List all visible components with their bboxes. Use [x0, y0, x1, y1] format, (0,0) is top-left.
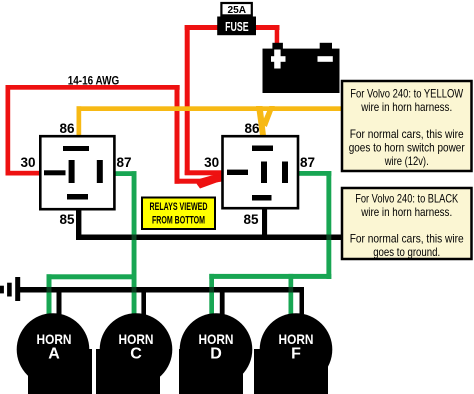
- relay U1 pin 30 bar: [44, 170, 66, 175]
- svg-text:For normal cars, this wire: For normal cars, this wire: [350, 232, 464, 246]
- horn C: [96, 313, 172, 394]
- relay U1 pin 87a bar: [69, 160, 75, 183]
- wire green: relay2 87 vertical: [326, 171, 331, 279]
- svg-text:FROM BOTTOM: FROM BOTTOM: [152, 215, 205, 227]
- svg-text:For Volvo 240: to YELLOW: For Volvo 240: to YELLOW: [350, 87, 464, 101]
- wire black: relay2 85 stub down: [262, 208, 267, 240]
- relay U1 pin 85 bar: [67, 194, 88, 200]
- svg-text:FUSE: FUSE: [225, 19, 249, 34]
- battery BT1 plus mark: [271, 56, 286, 62]
- wire yellow: stub down into relay1 pin 86: [77, 106, 82, 136]
- relay U2 pin 85 bar: [252, 195, 272, 201]
- wire red: left vertical down to relay1 30: [6, 85, 11, 175]
- svg-text:F: F: [291, 346, 301, 363]
- svg-text:wire in horn harness.: wire in horn harness.: [360, 205, 452, 219]
- wire crossing tint: green over ground bus at horn D: [209, 287, 214, 293]
- wire yellow: branch down into relay2 pin 86: [256, 106, 266, 136]
- wire green: relay2 87 stub: [298, 171, 331, 176]
- wire crossing tint: green over 85 bus at relay2 87: [326, 235, 331, 241]
- wire red: fuse left horizontal: [185, 25, 220, 30]
- svg-text:wire in horn harness.: wire in horn harness.: [360, 100, 452, 114]
- note box 2: black wire note: [342, 188, 472, 259]
- relay U2 pin 87 bar: [282, 162, 288, 184]
- svg-text:C: C: [130, 346, 142, 363]
- svg-text:D: D: [210, 346, 222, 363]
- note box 1: yellow wire note: [342, 81, 472, 171]
- svg-text:For normal cars, this wire: For normal cars, this wire: [350, 127, 464, 141]
- wire red: horizontal B into relay2 30: [185, 170, 223, 175]
- wire red: diagonal band A into relay2 30: [197, 175, 223, 189]
- wire green: branch horizontal over horns D F: [209, 274, 331, 279]
- wire green: branch horizontal to horn A: [47, 274, 137, 279]
- wire black: drop into horn A: [57, 287, 62, 315]
- relay U1 pin 86 bar: [63, 146, 89, 151]
- wire black: bus corner drop into horn F: [300, 287, 305, 314]
- horn F: [254, 313, 332, 394]
- svg-text:86: 86: [59, 121, 75, 136]
- fuse F1 body: [217, 17, 256, 36]
- wire green: relay1 87 stub: [114, 171, 137, 176]
- wire red: horizontal A toward relay2 30: [175, 179, 202, 184]
- svg-text:goes to horn switch power: goes to horn switch power: [349, 141, 465, 155]
- relay U2 box: [223, 136, 299, 208]
- svg-text:A: A: [48, 346, 60, 363]
- svg-text:goes to ground.: goes to ground.: [373, 245, 440, 259]
- svg-text:For Volvo 240: to BLACK: For Volvo 240: to BLACK: [355, 192, 458, 206]
- note label: RELAYS VIEWED FROM BOTTOM: [142, 198, 215, 230]
- wire black: relay1 85 stub down: [76, 209, 81, 240]
- svg-text:30: 30: [204, 155, 219, 170]
- wire red: vertical to battery + terminal: [275, 25, 280, 44]
- wire green: drop into horn F: [289, 274, 294, 317]
- svg-text:30: 30: [20, 155, 35, 170]
- svg-text:85: 85: [60, 212, 76, 227]
- horn D: [179, 313, 252, 394]
- wire crossing tint: green over ground bus at horn F: [289, 287, 294, 293]
- relay U2 pin 30 bar: [227, 170, 248, 175]
- relay U1 box: [40, 136, 114, 209]
- wire green: relay1 87 vertical down to horn C: [132, 171, 137, 316]
- wire red: stub into relay1 pin 30: [6, 171, 40, 176]
- svg-text:85: 85: [244, 212, 260, 227]
- relay U1 pin 87 bar: [97, 160, 103, 183]
- wire black: 85 ground bus to note box 2: [76, 235, 342, 241]
- wire crossing tint: green over 85 bus at relay1 87: [132, 235, 137, 241]
- wire red: vertical A from AWG line down: [175, 85, 180, 184]
- battery BT1 positive terminal: [272, 43, 283, 50]
- wire yellow: main horizontal to note box 1: [77, 106, 343, 111]
- wire green: drop into horn A: [47, 274, 52, 316]
- battery BT1 body: [263, 49, 340, 93]
- svg-text:wire (12v).: wire (12v).: [384, 154, 429, 168]
- wire crossing tint: green over ground bus at horn C: [132, 287, 137, 293]
- relay U2 pin 87a bar: [261, 162, 267, 184]
- wire black: main ground bus: [20, 287, 304, 293]
- ground symbol: [0, 277, 20, 301]
- horn A: [17, 313, 92, 394]
- svg-text:87: 87: [117, 155, 132, 170]
- relay U2 pin 86 bar: [252, 146, 273, 152]
- wire red: fuse right horizontal: [255, 25, 280, 30]
- battery BT1 negative terminal: [320, 43, 332, 50]
- fuse F1 rating box 25A: [221, 3, 251, 15]
- battery BT1 minus mark: [318, 56, 333, 62]
- wire red: 14-16 AWG horizontal: [6, 85, 180, 90]
- svg-text:25A: 25A: [228, 4, 247, 16]
- wire black: drop into horn C: [141, 287, 146, 315]
- wire black: drop into horn D: [220, 287, 225, 315]
- svg-text:86: 86: [244, 121, 260, 136]
- wire green: drop into horn D: [209, 274, 214, 317]
- wire red: vertical B from fuse down: [185, 25, 190, 175]
- svg-text:14-16 AWG: 14-16 AWG: [68, 76, 120, 88]
- svg-text:87: 87: [300, 155, 315, 170]
- wire crossing tint: green over ground bus at horn A: [47, 287, 52, 293]
- svg-text:RELAYS VIEWED: RELAYS VIEWED: [150, 201, 208, 213]
